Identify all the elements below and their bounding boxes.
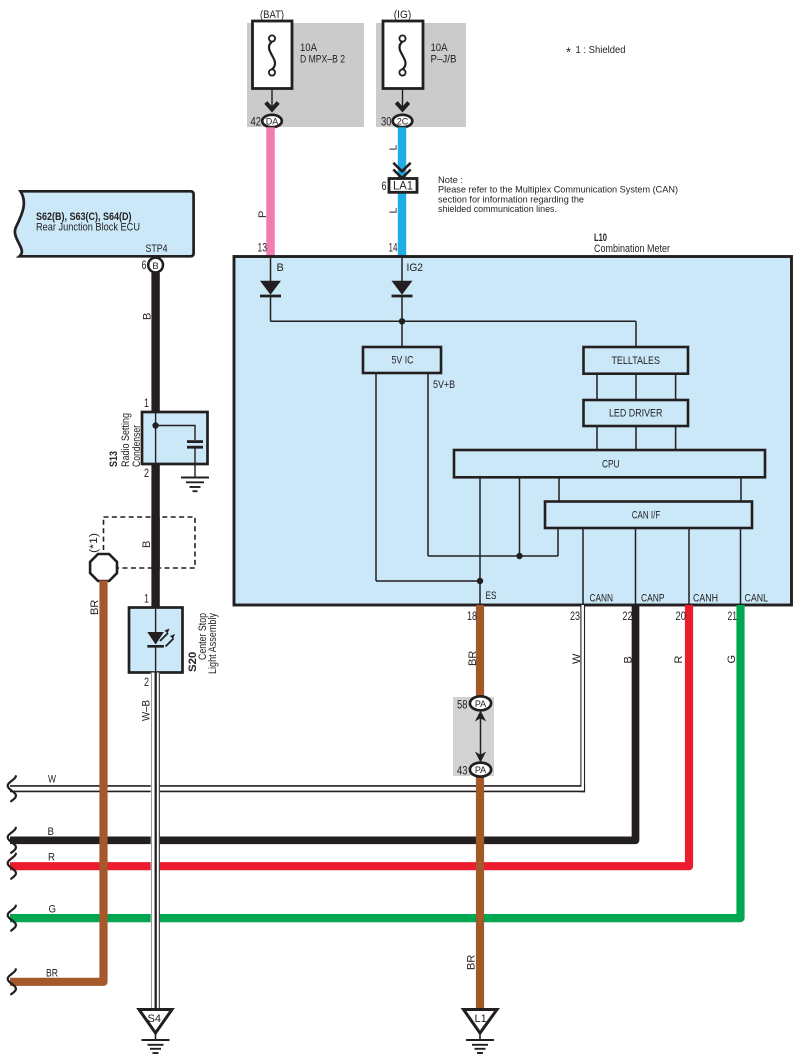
svg-text:B: B (623, 656, 635, 663)
svg-text:Condenser: Condenser (131, 425, 143, 467)
svg-text:B: B (277, 262, 284, 274)
svg-text:(IG): (IG) (394, 9, 412, 21)
svg-text:BR: BR (466, 955, 478, 970)
svg-text:43: 43 (457, 764, 468, 778)
svg-text:B: B (48, 826, 55, 838)
svg-text:30: 30 (381, 115, 392, 129)
svg-text:1 : Shielded: 1 : Shielded (576, 44, 626, 56)
svg-text:1: 1 (144, 396, 149, 410)
svg-text:L: L (388, 145, 400, 151)
svg-text:S13: S13 (108, 451, 120, 467)
svg-text:PA: PA (475, 699, 486, 709)
svg-text:BR: BR (467, 651, 479, 666)
svg-text:5V IC: 5V IC (392, 355, 414, 367)
svg-text:STP4: STP4 (146, 243, 168, 255)
svg-text:13: 13 (258, 241, 268, 255)
svg-text:BR: BR (46, 968, 58, 980)
svg-text:21: 21 (728, 609, 738, 623)
svg-text:58: 58 (457, 698, 468, 712)
svg-text:W–B: W–B (141, 700, 153, 721)
svg-text:R: R (48, 852, 55, 864)
svg-text:IG2: IG2 (407, 262, 424, 274)
svg-text:10A: 10A (300, 42, 318, 54)
svg-text:Rear Junction Block ECU: Rear Junction Block ECU (36, 222, 140, 234)
svg-text:P–J/B: P–J/B (431, 54, 457, 66)
svg-text:B: B (142, 313, 154, 320)
svg-text:6: 6 (382, 179, 387, 193)
svg-text:CANL: CANL (745, 593, 769, 605)
svg-text:shielded communication lines.: shielded communication lines. (438, 203, 557, 214)
svg-text:22: 22 (623, 609, 633, 623)
svg-text:1: 1 (144, 592, 149, 606)
svg-text:42: 42 (251, 115, 262, 129)
svg-text:W: W (571, 653, 583, 664)
svg-text:Combination Meter: Combination Meter (594, 243, 670, 255)
svg-text:B: B (141, 541, 153, 548)
svg-text:CANP: CANP (641, 593, 665, 605)
svg-text:CANN: CANN (590, 593, 614, 605)
svg-text:L1: L1 (475, 1013, 487, 1025)
svg-text:W: W (48, 774, 56, 786)
svg-text:BR: BR (89, 600, 101, 615)
svg-text:L: L (388, 208, 400, 214)
svg-text:(*1): (*1) (88, 533, 100, 553)
svg-text:D MPX–B 2: D MPX–B 2 (300, 54, 345, 66)
svg-text:23: 23 (570, 609, 580, 623)
svg-text:TELLTALES: TELLTALES (611, 355, 660, 367)
svg-text:CANH: CANH (693, 593, 718, 605)
svg-text:2: 2 (144, 675, 149, 689)
svg-text:10A: 10A (431, 42, 449, 54)
svg-text:G: G (49, 904, 57, 916)
svg-text:Light Assembly: Light Assembly (207, 613, 219, 674)
svg-text:2C: 2C (397, 117, 409, 127)
svg-text:14: 14 (389, 241, 398, 255)
svg-text:(BAT): (BAT) (260, 9, 284, 21)
svg-text:DA: DA (266, 117, 279, 127)
svg-text:LED DRIVER: LED DRIVER (609, 408, 663, 420)
svg-text:6: 6 (142, 258, 147, 272)
svg-text:20: 20 (676, 609, 687, 623)
svg-text:2: 2 (144, 466, 149, 480)
svg-text:B: B (152, 261, 158, 272)
svg-text:CAN I/F: CAN I/F (632, 510, 661, 522)
svg-text:CPU: CPU (602, 458, 620, 470)
svg-text:5V+B: 5V+B (433, 379, 455, 391)
svg-text:P: P (257, 211, 269, 218)
svg-text:S4: S4 (148, 1013, 161, 1025)
svg-text:18: 18 (467, 609, 477, 623)
svg-text:G: G (726, 655, 738, 664)
svg-text:*: * (566, 45, 571, 60)
svg-text:R: R (673, 656, 685, 664)
svg-text:ES: ES (486, 590, 497, 602)
svg-text:LA1: LA1 (393, 181, 413, 193)
svg-text:PA: PA (475, 765, 486, 775)
